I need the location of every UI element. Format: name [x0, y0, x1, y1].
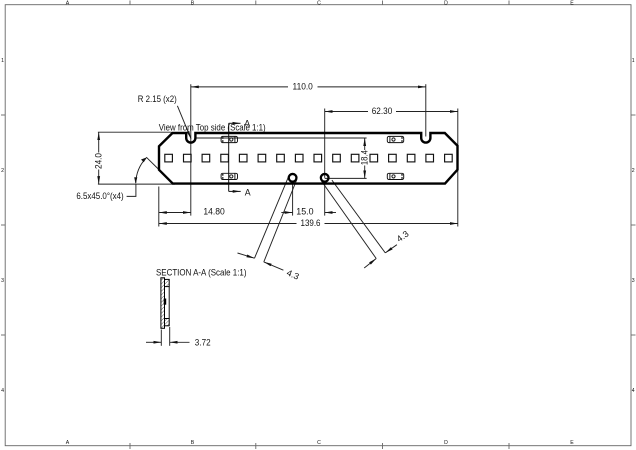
svg-text:18.4: 18.4: [360, 150, 370, 165]
connector BL: [221, 173, 237, 179]
dimension 3.72: [146, 327, 190, 346]
svg-text:24.0: 24.0: [94, 153, 104, 169]
board outline: [159, 133, 458, 184]
section board body: [161, 278, 165, 329]
svg-text:R 2.15 (x2): R 2.15 (x2): [138, 94, 177, 104]
svg-text:C: C: [317, 440, 321, 446]
svg-text:A: A: [244, 118, 250, 128]
dimension 4.3 hole2: [322, 180, 397, 268]
svg-text:E: E: [570, 440, 574, 446]
connector TL: [221, 136, 237, 142]
hole H2: [321, 174, 329, 182]
dimension 24.0: [98, 132, 175, 184]
dimension 4.3 hole1: [238, 177, 297, 270]
svg-text:3.72: 3.72: [195, 337, 211, 347]
svg-text:2: 2: [1, 168, 4, 174]
svg-text:A: A: [66, 0, 70, 6]
svg-text:4: 4: [632, 388, 635, 394]
section profile line: [168, 287, 170, 319]
svg-text:A: A: [245, 187, 251, 197]
dimension 18.4: [196, 138, 367, 178]
svg-text:6.5x45.0°(x4): 6.5x45.0°(x4): [76, 191, 123, 201]
svg-text:3: 3: [632, 278, 635, 284]
svg-text:1: 1: [632, 58, 635, 64]
dimension 6.5x45.0 chamfer callout: [127, 157, 160, 196]
svg-text:2: 2: [632, 168, 635, 174]
svg-text:D: D: [444, 0, 448, 6]
section connector bottom: [165, 319, 170, 326]
dimension 110.0: [191, 84, 426, 215]
section connector top: [165, 279, 170, 286]
svg-text:4: 4: [1, 388, 4, 394]
connector BR: [387, 173, 403, 179]
dimension 15.0: [281, 183, 336, 216]
connector TR: [387, 136, 403, 142]
svg-text:B: B: [191, 440, 195, 446]
svg-text:C: C: [317, 0, 321, 6]
svg-text:110.0: 110.0: [293, 82, 313, 92]
dimension 62.30: [325, 109, 458, 227]
svg-text:1: 1: [1, 58, 4, 64]
dimension R 2.15 (x2) leader: [177, 106, 191, 139]
svg-text:B: B: [191, 0, 195, 6]
svg-text:14.80: 14.80: [203, 207, 225, 217]
svg-text:E: E: [570, 0, 574, 6]
PCB square pads (16): [165, 154, 452, 162]
svg-text:A: A: [66, 440, 70, 446]
dimension 139.6: [159, 223, 458, 225]
svg-text:15.0: 15.0: [296, 207, 313, 217]
section pad: [164, 299, 167, 305]
svg-text:3: 3: [1, 278, 4, 284]
svg-text:SECTION A-A (Scale 1:1): SECTION A-A (Scale 1:1): [156, 268, 247, 278]
dimension 14.80: [159, 187, 191, 227]
svg-text:62.30: 62.30: [372, 106, 393, 116]
hole H1: [289, 174, 297, 182]
section line A-A: [229, 123, 241, 191]
svg-text:D: D: [444, 440, 448, 446]
svg-text:139.6: 139.6: [301, 218, 321, 228]
